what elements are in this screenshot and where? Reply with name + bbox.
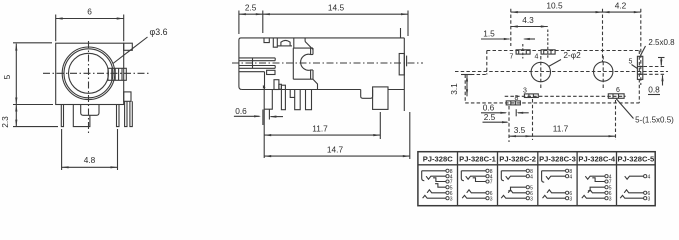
schematic: contact pin 5 L-shape up <box>435 184 446 188</box>
pad 3 <box>524 94 538 98</box>
schematic: tip line pin 4 with switch v <box>585 176 605 179</box>
schematic: ring line pin 6 with lever <box>547 190 566 193</box>
schematic: sleeve line pin 8 with J hook <box>501 170 526 172</box>
side view inner shelf vertical <box>264 72 266 90</box>
pcb outline left lower <box>464 75 466 103</box>
front view inner hole circle <box>69 53 109 93</box>
side view top edge <box>241 37 404 39</box>
contact arch table <box>277 45 292 47</box>
front view middle ring circle <box>64 49 113 98</box>
right face tick <box>406 56 408 67</box>
plate top tick <box>400 28 402 38</box>
front view right pin C <box>130 101 132 126</box>
svg-text:PJ-328C: PJ-328C <box>423 155 453 164</box>
svg-text:4: 4 <box>648 174 651 180</box>
svg-text:3: 3 <box>569 196 572 202</box>
table column line <box>616 152 618 206</box>
side view front face <box>239 40 242 90</box>
svg-text:2.5: 2.5 <box>245 3 257 13</box>
side right plate block <box>399 54 404 75</box>
dimension 11.7 side view <box>379 112 381 139</box>
schematic: tip line pin 4 with switch v <box>426 176 446 179</box>
svg-text:0.6: 0.6 <box>483 103 495 113</box>
pad 8 <box>506 101 520 105</box>
front view right pin B <box>125 101 127 126</box>
front view body outline <box>56 43 124 104</box>
schematic: line pin 3 with lever <box>620 195 643 198</box>
side view right face and plate <box>403 38 405 111</box>
pcb outline top <box>487 50 640 52</box>
svg-text:11.7: 11.7 <box>312 124 328 134</box>
schematic: ring line pin 6 with lever <box>588 190 605 193</box>
side view horizontal centerline <box>232 62 423 64</box>
top-left rounded corner <box>239 38 241 40</box>
svg-text:8: 8 <box>515 95 519 102</box>
side pin C <box>306 90 312 110</box>
svg-text:2.3: 2.3 <box>0 116 10 128</box>
svg-text:0.6: 0.6 <box>235 106 247 116</box>
svg-text:0.8: 0.8 <box>648 85 660 95</box>
pcb outline right <box>638 51 640 103</box>
svg-text:14.7: 14.7 <box>327 145 344 155</box>
block top edge <box>293 47 313 49</box>
svg-text:3: 3 <box>648 196 651 202</box>
schematic: line pin 3 with lever <box>543 195 566 198</box>
dimension 2.3 left <box>13 104 53 106</box>
svg-text:2-φ2: 2-φ2 <box>563 50 581 60</box>
front view outer barrel circle <box>62 47 115 100</box>
contact window divider 2 <box>114 68 116 80</box>
front view vertical centerline <box>88 41 90 133</box>
schematic: line pin 3 with lever <box>582 195 605 198</box>
side contact tail A <box>274 80 279 90</box>
hole B vertical centerline <box>602 56 604 88</box>
schematic: tip line pin 4 with switch v <box>546 176 566 179</box>
svg-text:φ3.6: φ3.6 <box>150 27 168 37</box>
side contact tail B <box>279 84 282 89</box>
schematic: line pin 3 with lever <box>462 195 486 198</box>
hanging box 2 <box>273 38 277 47</box>
svg-text:3: 3 <box>523 88 527 95</box>
dimension 3.1 <box>461 74 472 76</box>
svg-text:2.5x0.8: 2.5x0.8 <box>648 38 675 47</box>
svg-text:PJ-328C-1: PJ-328C-1 <box>459 155 496 164</box>
dimension 3.5 <box>532 99 534 140</box>
block right upper <box>312 48 314 54</box>
tip contact fork <box>239 57 275 59</box>
hole B 2-phi2 <box>594 62 613 81</box>
side view bottom edge left <box>242 89 265 91</box>
svg-text:6: 6 <box>87 7 92 17</box>
fork lower tab <box>267 70 275 74</box>
svg-text:3: 3 <box>609 196 612 202</box>
svg-text:3: 3 <box>530 196 533 202</box>
notch top lip <box>311 54 313 56</box>
svg-text:4.2: 4.2 <box>615 1 627 11</box>
side pin 1 extension <box>263 109 265 158</box>
front view right pin A <box>117 105 120 127</box>
dimension 0.8 right <box>644 66 667 68</box>
svg-text:14.5: 14.5 <box>328 3 345 13</box>
svg-text:3: 3 <box>450 196 453 202</box>
pad 7 <box>516 50 530 54</box>
schematic: sleeve line pin 8 with J hook <box>461 170 486 172</box>
pad 4 <box>541 50 555 54</box>
contact arch <box>281 40 290 46</box>
dimension 10.5 / 4.2 <box>510 9 512 46</box>
svg-text:10.5: 10.5 <box>546 1 563 11</box>
front view left pin <box>61 105 63 127</box>
front view top-right tab <box>124 43 133 50</box>
hanging box 3 left <box>293 38 295 48</box>
contact window divider 4 <box>121 68 123 80</box>
svg-text:PJ-328C-5: PJ-328C-5 <box>617 155 654 164</box>
schematic: contact pin 5 hook down <box>508 187 526 191</box>
svg-text:7: 7 <box>510 54 514 61</box>
pcb outline bottom <box>465 102 639 104</box>
table column line <box>457 152 459 206</box>
table header separator <box>418 164 655 166</box>
svg-text:3.1: 3.1 <box>449 83 459 95</box>
schematic: ring line pin 6 with lever <box>427 190 446 193</box>
svg-text:5-(1.5x0.5): 5-(1.5x0.5) <box>635 116 674 125</box>
svg-text:6: 6 <box>616 87 620 94</box>
schematic: tip line pin 4 with switch v <box>506 176 527 179</box>
dimension 2.5 / 14.5 top of side view <box>238 11 240 35</box>
side step notch <box>361 90 373 99</box>
front view bottom channel pin <box>73 105 90 127</box>
hole A vertical centerline <box>540 56 542 88</box>
schematic: contact pin 7 L-shape <box>473 178 486 182</box>
front view contact window <box>108 68 126 80</box>
pad 6 <box>608 94 624 99</box>
table column line <box>537 152 539 206</box>
dimension 4.8 bottom <box>61 129 63 170</box>
hole A 2-phi2 <box>531 62 550 81</box>
switch housing boot <box>313 79 318 89</box>
side middle step <box>290 90 295 98</box>
side pin A <box>281 85 285 110</box>
schematic: contact pin 5 hook down <box>588 187 605 191</box>
schematic: line pin 3 with lever <box>423 195 446 198</box>
dimension 6 top <box>55 15 57 42</box>
svg-text:5: 5 <box>2 74 12 79</box>
svg-text:4: 4 <box>530 174 533 180</box>
side pin B <box>295 90 301 110</box>
schematic: line pin 3 with lever <box>501 195 526 198</box>
schematic: tip line pin 4 with switch v <box>625 176 644 179</box>
block right lower <box>312 70 314 79</box>
pcb outline left upper <box>486 51 488 75</box>
svg-text:4: 4 <box>569 174 572 180</box>
svg-text:4.8: 4.8 <box>84 155 96 165</box>
pcb inner pad row line <box>505 95 626 97</box>
hanging box 3 right upper <box>304 38 306 42</box>
dimension 14.7 side view <box>409 112 411 159</box>
svg-text:PJ-328C-2: PJ-328C-2 <box>499 155 536 164</box>
schematic: sleeve line pin 8 with J hook <box>542 170 566 172</box>
bottom edge right segment <box>388 89 404 91</box>
schematic: ring line pin 6 with lever <box>508 190 526 193</box>
svg-text:4: 4 <box>535 54 539 61</box>
notch bottom lip <box>311 69 313 71</box>
dimension 5 left <box>13 42 52 44</box>
svg-text:PJ-328C-4: PJ-328C-4 <box>578 155 615 164</box>
fork left divider <box>252 58 254 68</box>
contact window divider 3 <box>118 68 120 80</box>
diagonal brace <box>305 42 313 50</box>
side view bottom edge middle <box>265 89 361 91</box>
pcb outline step <box>465 74 487 76</box>
table column line <box>497 152 499 206</box>
contact window divider 1 <box>111 68 113 80</box>
front face solder blob <box>263 85 266 89</box>
dimension 4.3 <box>511 26 548 28</box>
horseshoe notch <box>301 48 311 79</box>
schematic: ring line pin 6 with lever <box>467 190 486 193</box>
block bottom edge <box>293 78 313 80</box>
svg-text:11.7: 11.7 <box>553 124 569 134</box>
svg-text:2.5: 2.5 <box>484 112 496 122</box>
table frame <box>418 152 655 206</box>
side pin 1 <box>264 90 272 110</box>
pad 5 (2.5x0.8) <box>637 56 642 79</box>
pcb horizontal centerline <box>455 71 668 73</box>
front view horizontal centerline <box>43 72 151 74</box>
svg-text:PJ-328C-3: PJ-328C-3 <box>539 155 576 164</box>
svg-text:3.5: 3.5 <box>514 125 526 135</box>
schematic: ring line pin 6 with lever <box>624 190 643 193</box>
svg-text:4.3: 4.3 <box>522 15 534 25</box>
front view bottom nub <box>81 105 99 116</box>
schematic: sleeve line pin 8 with J hook <box>422 170 446 172</box>
hanging box 1 <box>264 38 269 43</box>
table column line <box>576 152 578 206</box>
side view inner shelf line <box>239 71 265 73</box>
schematic: contact pin 7 L-shape <box>433 178 446 182</box>
front view mid-right tab <box>124 92 131 101</box>
dimension 11.7 bottom view <box>615 100 617 140</box>
block left edge <box>292 48 294 79</box>
schematic: contact pin 7 L-shape <box>592 178 605 182</box>
svg-text:7: 7 <box>490 180 493 186</box>
svg-text:1.5: 1.5 <box>483 29 495 39</box>
side big pin <box>373 87 388 110</box>
svg-text:3: 3 <box>490 196 493 202</box>
schematic: tip line pin 4 with switch v <box>466 176 486 179</box>
